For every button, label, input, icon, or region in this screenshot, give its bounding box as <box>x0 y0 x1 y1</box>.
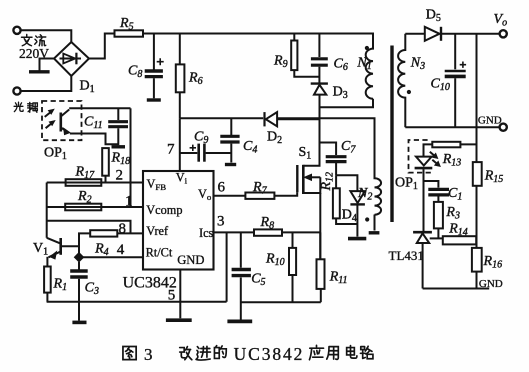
resistor R8 <box>254 229 320 235</box>
svg-text:OP1: OP1 <box>395 176 418 193</box>
svg-text:N3: N3 <box>410 56 425 73</box>
resistor R5 <box>115 30 144 36</box>
svg-text:N1: N1 <box>356 56 371 73</box>
transformer core <box>390 46 393 223</box>
IC U1 UC3842 box <box>143 171 214 270</box>
winding N1 <box>365 34 373 99</box>
wire top terminal to bridge <box>21 30 72 42</box>
svg-text:OP1: OP1 <box>44 146 67 163</box>
svg-text:R18: R18 <box>111 151 131 168</box>
resistor R14 <box>443 236 476 244</box>
svg-text:R10: R10 <box>265 252 285 269</box>
transistor V1 <box>47 238 79 267</box>
svg-text:C5: C5 <box>251 272 265 289</box>
pin 6 wire Vo drive <box>214 195 246 197</box>
svg-text:TL431: TL431 <box>389 248 424 263</box>
svg-text:Ics: Ics <box>199 226 214 240</box>
pin 1 wire Vcomp <box>47 206 143 208</box>
Vref rail wire <box>47 221 131 234</box>
resistor R18 <box>102 148 109 182</box>
resistor R12 <box>333 175 358 224</box>
wire pin7 drop <box>179 118 181 171</box>
svg-text:Rt/Ct: Rt/Ct <box>146 246 173 260</box>
capacitor C6 <box>311 34 328 83</box>
OP1 light arrows <box>45 109 55 128</box>
svg-text:C3: C3 <box>85 281 99 298</box>
node junction diamond <box>74 253 83 262</box>
MOSFET S1 <box>297 143 320 195</box>
resistor R11 <box>317 232 325 302</box>
svg-text:D3: D3 <box>333 85 348 102</box>
AC input terminal bottom <box>13 87 20 94</box>
GND terminal <box>500 124 507 131</box>
svg-text:R2: R2 <box>77 189 92 206</box>
diode D2 <box>265 112 320 126</box>
wire rail A to pin3 <box>226 232 228 301</box>
svg-text:C11: C11 <box>84 115 103 132</box>
optocoupler OP1 LED dashed box <box>409 140 431 173</box>
svg-text:R3: R3 <box>445 205 460 222</box>
output terminal Vo <box>500 30 507 37</box>
svg-text:Vo: Vo <box>198 187 212 202</box>
ground rail B <box>241 301 321 303</box>
pin 4 wire Rt/Ct <box>79 256 143 258</box>
resistor R9 <box>291 34 319 77</box>
diode D4 <box>348 191 366 239</box>
resistor R13 <box>424 142 477 157</box>
LED of OP1 <box>415 157 433 232</box>
capacitor C9 <box>180 144 232 162</box>
svg-text:D5: D5 <box>426 8 441 25</box>
wire bridge output up to R5 <box>89 34 115 59</box>
winding N2 <box>365 171 381 233</box>
svg-text:6: 6 <box>218 180 226 196</box>
svg-text:C8: C8 <box>128 64 142 81</box>
svg-text:8: 8 <box>119 221 127 237</box>
svg-text:1: 1 <box>125 194 133 210</box>
wire top rail <box>143 33 374 35</box>
label 光耦 <box>14 102 37 112</box>
svg-text:N2: N2 <box>357 186 372 203</box>
svg-text:C6: C6 <box>334 57 348 74</box>
svg-text:R17: R17 <box>75 165 96 182</box>
ground at bridge input <box>29 59 54 72</box>
wire bottom terminal to bridge <box>21 76 72 91</box>
svg-text:S1: S1 <box>299 145 312 162</box>
svg-text:Vi: Vi <box>176 171 188 186</box>
sense node vertical wire <box>319 193 321 259</box>
capacitor C1 <box>424 181 450 202</box>
feedback divider vertical wire <box>476 34 478 162</box>
resistor R7 <box>245 192 297 199</box>
wire N3 top to D5 <box>405 33 425 35</box>
winding N3 <box>398 34 411 127</box>
resistor R16 <box>472 248 482 289</box>
node X wire (Vcc rail to D2) <box>180 117 263 119</box>
svg-text:R1: R1 <box>53 277 68 294</box>
svg-text:R13: R13 <box>442 152 462 169</box>
left rail (Vref distribution) <box>46 183 48 238</box>
svg-text:7: 7 <box>167 142 175 158</box>
optocoupler OP1 phototransistor dashed box <box>42 101 82 140</box>
capacitor C5 <box>227 232 252 321</box>
resistor R15 <box>473 162 482 248</box>
resistor R6 <box>176 34 185 119</box>
svg-text:R9: R9 <box>273 54 288 71</box>
svg-text:GND: GND <box>479 278 503 290</box>
TL431 ref wire <box>430 237 443 239</box>
resistor R4 <box>79 230 117 253</box>
wire OP1 collector to node <box>69 107 130 109</box>
svg-text:C7: C7 <box>341 139 356 156</box>
svg-text:R15: R15 <box>484 169 504 186</box>
pin 5 wire GND <box>166 270 192 321</box>
OP1 phototransistor <box>61 110 70 135</box>
node Y wire <box>336 175 357 191</box>
capacitor C3 <box>70 262 88 323</box>
svg-text:UC3842: UC3842 <box>234 344 305 364</box>
AC input terminal top <box>13 27 20 34</box>
drain vertical wire <box>319 96 321 143</box>
svg-text:GND: GND <box>478 115 502 127</box>
vertical wire node column <box>130 108 132 207</box>
resistor R17 <box>66 179 102 186</box>
svg-text:R6: R6 <box>188 71 203 88</box>
svg-text:R8: R8 <box>260 215 275 232</box>
svg-text:R16: R16 <box>483 254 503 271</box>
svg-text:C10: C10 <box>431 77 450 94</box>
svg-text:Vref: Vref <box>146 224 169 238</box>
resistor R3 <box>434 202 443 239</box>
resistor R10 <box>289 232 296 302</box>
secondary GND rail <box>405 126 499 128</box>
svg-text:C1: C1 <box>448 186 462 203</box>
svg-text:C9: C9 <box>194 130 208 147</box>
svg-text:GND: GND <box>177 253 204 267</box>
svg-text:Vcomp: Vcomp <box>146 203 182 217</box>
pin 3 wire Ics <box>214 231 255 233</box>
capacitor C8 <box>145 34 164 101</box>
bridge rectifier D1 <box>54 42 89 76</box>
caption 图3 改进的 UC3842 应用电路 <box>123 345 373 360</box>
wire OP1 emitter <box>70 134 118 145</box>
wire D2 line to N2 top <box>277 118 374 170</box>
svg-text:3: 3 <box>144 345 153 364</box>
svg-text:4: 4 <box>117 242 125 258</box>
diode D3 <box>311 84 328 108</box>
label 交流 <box>22 35 46 46</box>
capacitor C11 <box>108 108 128 147</box>
svg-text:220V: 220V <box>19 46 49 61</box>
svg-text:R7: R7 <box>252 180 268 197</box>
svg-text:R4: R4 <box>94 242 109 259</box>
capacitor C7 <box>320 143 347 176</box>
svg-text:2: 2 <box>116 168 124 184</box>
TL431 shunt regulator <box>413 232 432 288</box>
capacitor C10 <box>445 34 466 127</box>
svg-text:R5: R5 <box>119 16 134 33</box>
pin 8 wire Vref <box>117 232 143 234</box>
svg-text:D2: D2 <box>267 130 282 147</box>
feedback bottom rail <box>423 288 490 290</box>
svg-text:UC3842: UC3842 <box>123 275 177 292</box>
svg-text:Vo: Vo <box>494 12 508 29</box>
svg-text:R14: R14 <box>448 222 468 239</box>
diode D5 <box>425 27 500 41</box>
resistor R2 <box>65 204 101 211</box>
pin 2 wire VFB <box>47 182 143 184</box>
svg-text:D4: D4 <box>342 208 357 225</box>
resistor R1 <box>44 267 51 302</box>
svg-text:C4: C4 <box>243 139 257 156</box>
svg-text:3: 3 <box>217 214 225 230</box>
wire N1 bottom to drain node <box>320 99 374 107</box>
LED emission arrows <box>430 152 440 167</box>
svg-text:R11: R11 <box>329 270 348 287</box>
svg-text:D1: D1 <box>80 79 95 96</box>
svg-text:R12: R12 <box>319 172 336 192</box>
svg-text:V1: V1 <box>33 241 48 258</box>
capacitor C4 <box>220 118 239 164</box>
svg-text:VFB: VFB <box>147 177 167 192</box>
primary ground rail A <box>47 301 227 303</box>
